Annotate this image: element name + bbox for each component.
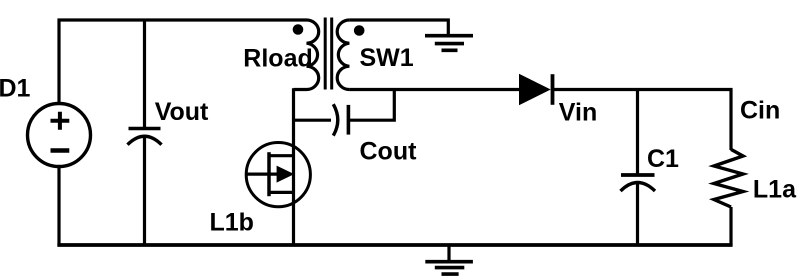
transistor Q1 circle (246, 143, 310, 207)
transistor Q1 gate lead (246, 173, 279, 176)
wire bottom rail horizontal (57, 243, 732, 247)
svg-text:Vin: Vin (559, 98, 597, 126)
transformer core lines (325, 18, 332, 90)
wire Vout branch bottom (143, 137, 146, 245)
wire C1 branch bottom (636, 183, 639, 245)
svg-text:D1: D1 (0, 75, 31, 103)
svg-text:Vout: Vout (155, 98, 209, 126)
svg-text:Rload: Rload (243, 45, 312, 73)
wire resistor bottom lead (729, 207, 732, 245)
wire Vout branch top (143, 20, 146, 129)
svg-text:L1a: L1a (753, 176, 797, 204)
wire bottom rail (57, 167, 60, 247)
wire main rail from diode to right branch (552, 90, 731, 151)
wire transformer right top to ground (349, 20, 448, 35)
resistor L1a zigzag (714, 149, 743, 207)
ground bottom stem (447, 245, 450, 262)
svg-text:Cout: Cout (360, 138, 418, 166)
wire C1 branch top (636, 88, 639, 175)
capacitor Vout flat plate (129, 127, 161, 131)
transistor Q1 source stub (269, 191, 294, 194)
wire top-left horizontal from D1 branch to transformer (59, 20, 307, 104)
transistor Q1 arrow (277, 166, 295, 183)
capacitor C1 flat plate (621, 173, 655, 177)
transistor Q1 channel bar (267, 152, 271, 196)
transformer left polarity dot (293, 24, 304, 35)
diode triangle (519, 74, 551, 105)
wire MOSFET vertical branch (292, 88, 295, 245)
capacitor Cout curved plate (333, 104, 338, 135)
diode cathode bar (551, 74, 555, 105)
D1 minus sign (51, 148, 70, 153)
transformer right winding (337, 20, 349, 90)
transformer right polarity dot (354, 25, 365, 36)
wire main rail from transformer to diode anode (349, 88, 519, 91)
wire Cout right lead riser (348, 88, 394, 120)
transformer left winding (294, 20, 319, 90)
svg-text:Cin: Cin (740, 97, 780, 125)
svg-text:SW1: SW1 (360, 44, 414, 72)
capacitor Cout flat plate (347, 105, 351, 135)
capacitor C1 curved plate (621, 183, 656, 192)
transistor Q1 drain stub (269, 154, 294, 157)
D1 plus sign (51, 112, 70, 130)
ground top-right (425, 36, 473, 51)
wire Cout left lead (294, 119, 332, 122)
ground bottom bars (425, 262, 473, 274)
svg-text:C1: C1 (647, 145, 679, 173)
svg-text:L1b: L1b (210, 209, 254, 237)
capacitor Vout curved plate (128, 136, 162, 145)
voltage source D1 circle (28, 104, 91, 167)
